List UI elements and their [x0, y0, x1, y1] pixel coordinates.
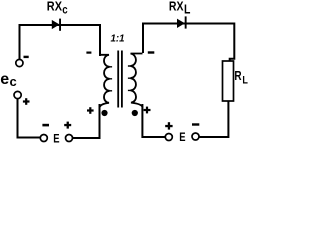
svg-text:RX: RX	[47, 0, 63, 14]
svg-text:c: c	[10, 74, 17, 89]
svg-text:1:1: 1:1	[111, 33, 125, 45]
svg-text:E: E	[53, 133, 60, 145]
svg-text:R: R	[234, 68, 241, 83]
svg-text:L: L	[242, 75, 248, 87]
svg-text:E: E	[179, 132, 186, 144]
svg-text:RX: RX	[169, 0, 184, 14]
svg-text:L: L	[184, 2, 191, 16]
svg-text:c: c	[62, 2, 68, 16]
svg-text:e: e	[0, 71, 9, 88]
